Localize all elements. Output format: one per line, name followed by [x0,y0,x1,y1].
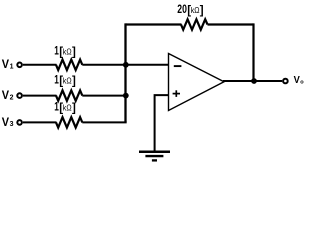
resistor R2 zigzag [56,90,82,100]
terminal V3 [17,120,22,125]
label R1 value 1[kΩ] [54,43,76,58]
junction dot output/feedback [251,78,257,84]
resistor R3 zigzag [56,117,82,127]
label V1 [2,57,14,71]
label V2 [2,88,14,102]
svg-text:]: ] [200,5,204,17]
wire feedback right vertical [252,23,254,81]
junction dot node A (V1/feedback) [123,62,129,68]
op-amp inverting input minus sign [174,65,182,67]
junction dot node A (V2) [123,93,129,99]
wire V2 terminal to R2 [23,95,57,97]
wire op-amp + input to ground [155,95,169,151]
terminal Vo [283,79,288,84]
wire V3 terminal to R3 [23,121,57,123]
svg-text:1: 1 [10,64,14,71]
svg-text:o: o [300,79,304,85]
terminal V1 [17,63,22,68]
svg-text:V: V [2,57,10,71]
svg-text:kΩ: kΩ [63,103,72,112]
svg-text:kΩ: kΩ [63,76,72,85]
label Vo [294,75,305,86]
resistor R1 zigzag [56,60,82,70]
wire op-amp output [223,80,282,82]
svg-text:V: V [2,88,10,102]
wire feedback top-right segment [208,23,254,25]
svg-text:2: 2 [10,94,14,101]
svg-text:V: V [294,75,300,86]
svg-text:kΩ: kΩ [191,6,200,15]
label V3 [2,115,14,129]
label R2 value 1[kΩ] [54,72,76,87]
wire R2 to node column [82,95,126,97]
label R3 value 1[kΩ] [54,99,76,114]
svg-text:]: ] [72,103,76,115]
wire R1 to op-amp inverting input [82,64,168,66]
svg-text:]: ] [72,47,76,59]
svg-text:kΩ: kΩ [63,47,72,56]
op-amp non-inverting input plus sign [173,90,180,97]
svg-text:3: 3 [10,121,14,128]
svg-text:V: V [2,115,10,129]
resistor RF 20k zigzag [181,19,208,29]
terminal V2 [17,93,22,98]
ground [139,152,170,161]
wire V1 terminal to R1 [23,64,57,66]
svg-text:20: 20 [177,2,187,16]
wire feedback top-left segment [126,23,182,25]
wire R3 to node column [82,121,126,123]
op-amp U1 triangle [169,54,225,111]
svg-text:]: ] [72,76,76,88]
wire inverting node vertical column [124,23,126,122]
label RF value 20[kΩ] [177,2,203,17]
